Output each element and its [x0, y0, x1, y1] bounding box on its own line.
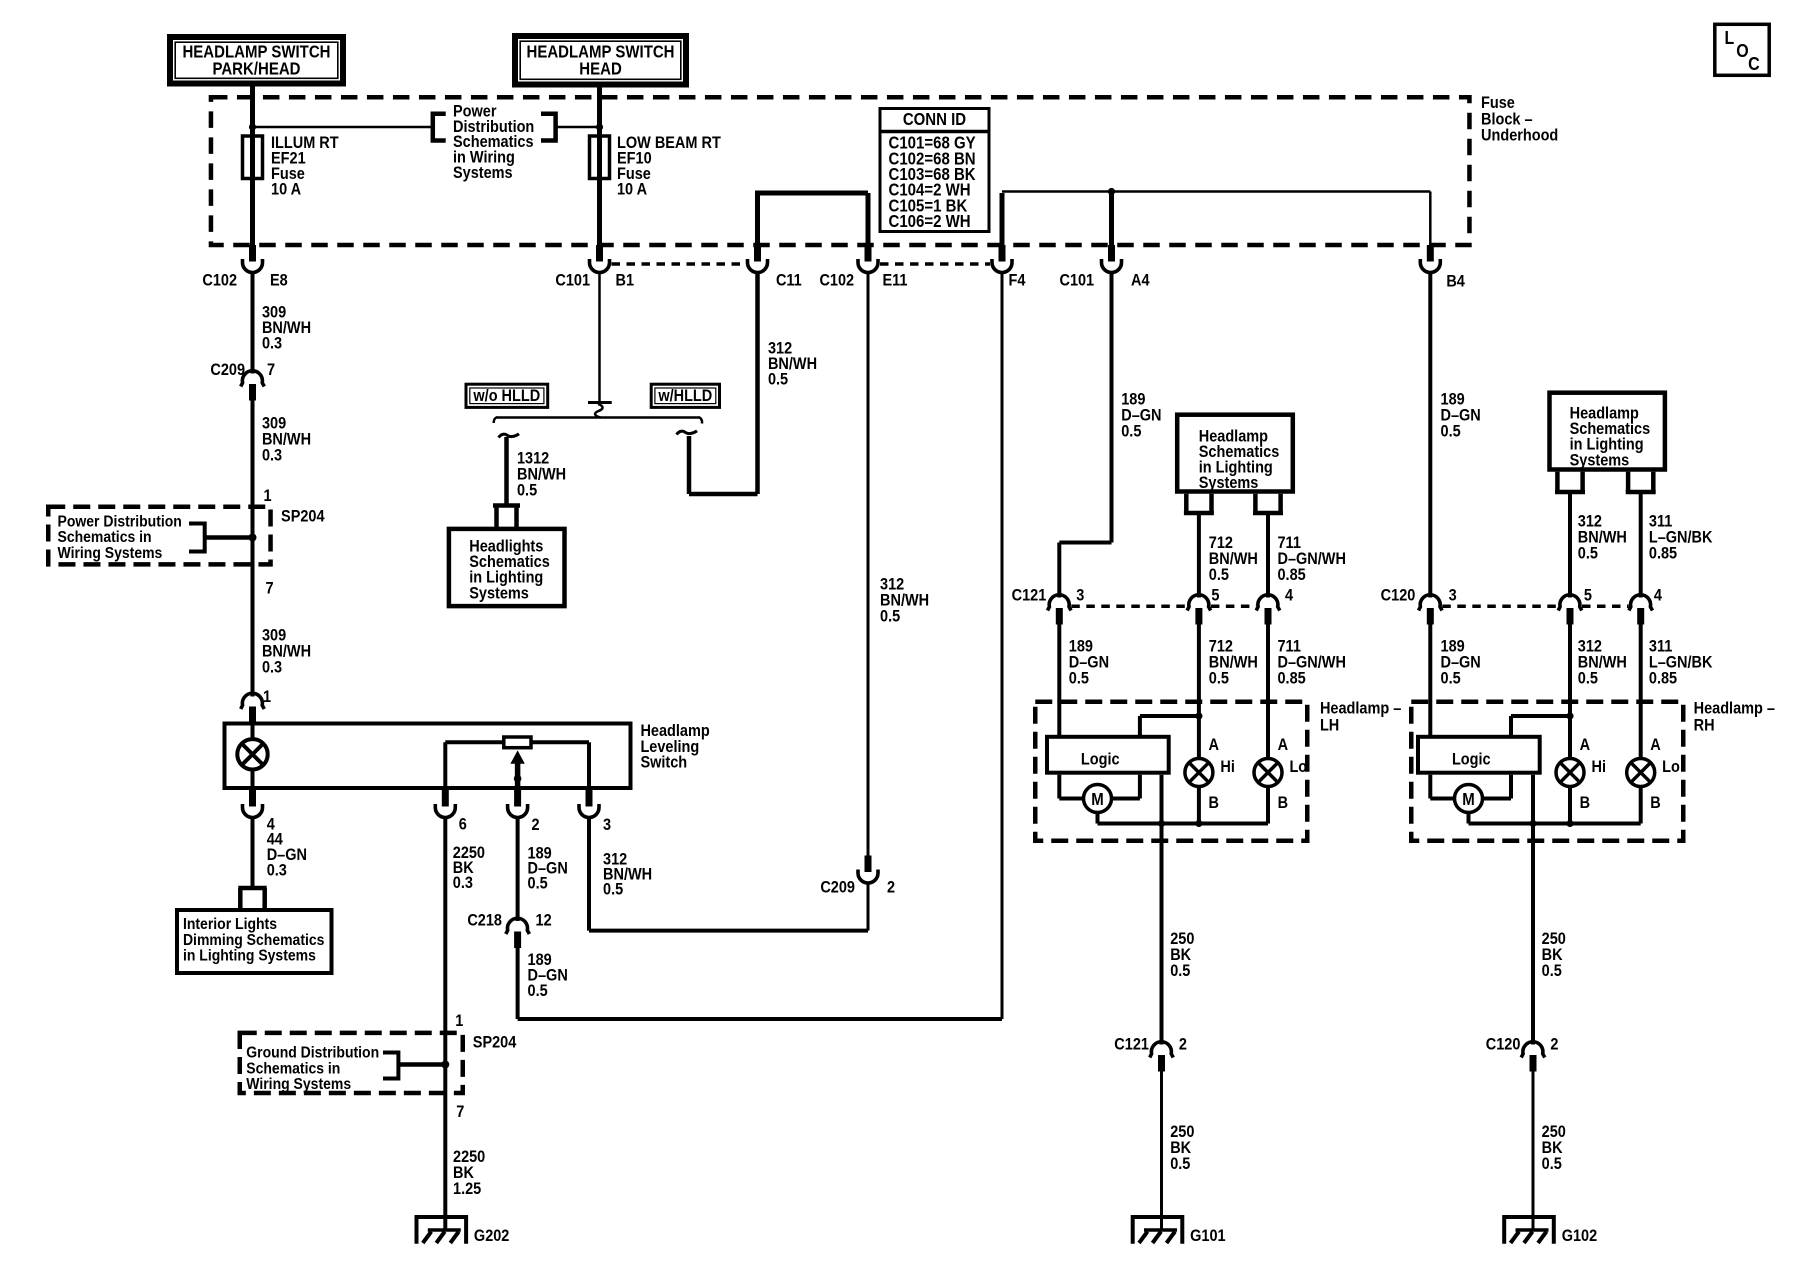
svg-text:Hi: Hi: [1220, 758, 1234, 776]
svg-text:HEAD: HEAD: [579, 60, 621, 79]
svg-text:G102: G102: [1562, 1227, 1598, 1245]
svg-text:C209: C209: [210, 361, 245, 379]
svg-text:M: M: [1091, 790, 1104, 809]
svg-text:0.5: 0.5: [528, 875, 548, 893]
svg-text:2: 2: [531, 816, 539, 834]
svg-text:A: A: [1650, 736, 1660, 754]
svg-text:SP204: SP204: [473, 1034, 517, 1052]
svg-text:0.85: 0.85: [1649, 670, 1678, 688]
svg-text:RH: RH: [1694, 717, 1715, 735]
svg-text:A: A: [1209, 736, 1219, 754]
svg-text:A: A: [1278, 736, 1288, 754]
svg-text:G202: G202: [474, 1227, 510, 1245]
svg-text:G101: G101: [1190, 1227, 1226, 1245]
svg-text:2: 2: [1179, 1035, 1187, 1053]
svg-text:5: 5: [1211, 587, 1219, 605]
svg-text:0.3: 0.3: [262, 447, 282, 465]
svg-text:B: B: [1278, 794, 1288, 812]
svg-text:Systems: Systems: [1570, 451, 1630, 469]
svg-text:0.5: 0.5: [1441, 670, 1461, 688]
svg-text:C11: C11: [776, 272, 802, 290]
svg-text:0.5: 0.5: [1069, 670, 1089, 688]
svg-text:Logic: Logic: [1452, 751, 1491, 769]
svg-text:3: 3: [1449, 587, 1457, 605]
svg-text:0.85: 0.85: [1649, 545, 1678, 563]
svg-text:Lo: Lo: [1662, 758, 1680, 776]
svg-text:0.5: 0.5: [1121, 422, 1141, 440]
svg-text:C218: C218: [467, 912, 502, 930]
svg-text:12: 12: [536, 912, 552, 930]
svg-text:0.5: 0.5: [880, 608, 900, 626]
svg-text:M: M: [1462, 790, 1475, 809]
svg-text:0.5: 0.5: [528, 982, 548, 1000]
svg-text:C101: C101: [1059, 272, 1094, 290]
svg-text:4: 4: [1654, 587, 1662, 605]
svg-text:3: 3: [1076, 587, 1084, 605]
svg-text:B: B: [1650, 794, 1660, 812]
svg-text:0.3: 0.3: [262, 335, 282, 353]
svg-text:0.5: 0.5: [1542, 1155, 1562, 1173]
svg-text:SP204: SP204: [281, 508, 325, 526]
svg-text:LH: LH: [1320, 717, 1339, 735]
svg-text:0.85: 0.85: [1278, 670, 1307, 688]
svg-text:C121: C121: [1012, 587, 1047, 605]
svg-text:B: B: [1580, 794, 1590, 812]
svg-text:0.5: 0.5: [1170, 962, 1190, 980]
svg-text:Systems: Systems: [469, 584, 529, 602]
svg-text:0.5: 0.5: [1542, 962, 1562, 980]
svg-text:CONN ID: CONN ID: [903, 110, 966, 129]
svg-text:C209: C209: [820, 879, 855, 897]
svg-text:A4: A4: [1131, 272, 1150, 290]
svg-text:0.5: 0.5: [1209, 670, 1229, 688]
svg-text:L: L: [1725, 27, 1735, 48]
svg-text:1.25: 1.25: [453, 1180, 482, 1198]
svg-text:1: 1: [455, 1012, 463, 1030]
svg-text:0.5: 0.5: [1170, 1155, 1190, 1173]
svg-text:0.5: 0.5: [1578, 670, 1598, 688]
svg-text:Headlamp –: Headlamp –: [1694, 700, 1776, 718]
svg-text:Lo: Lo: [1289, 758, 1307, 776]
svg-text:B4: B4: [1446, 273, 1465, 291]
svg-text:0.3: 0.3: [453, 874, 473, 892]
svg-text:2: 2: [887, 879, 895, 897]
svg-text:w/HLLD: w/HLLD: [657, 387, 712, 405]
svg-text:PARK/HEAD: PARK/HEAD: [212, 60, 300, 79]
svg-text:w/o HLLD: w/o HLLD: [472, 387, 540, 405]
svg-text:10 A: 10 A: [617, 181, 647, 199]
svg-text:Wiring Systems: Wiring Systems: [57, 544, 162, 562]
svg-text:C120: C120: [1381, 587, 1416, 605]
svg-text:0.5: 0.5: [517, 482, 537, 500]
svg-text:C121: C121: [1114, 1035, 1149, 1053]
svg-text:0.3: 0.3: [267, 862, 287, 880]
svg-text:Systems: Systems: [1199, 474, 1259, 492]
svg-text:B: B: [1209, 794, 1219, 812]
svg-text:0.3: 0.3: [262, 659, 282, 677]
svg-text:2: 2: [1550, 1035, 1558, 1053]
svg-text:Wiring Systems: Wiring Systems: [246, 1075, 351, 1093]
svg-text:Switch: Switch: [640, 754, 687, 772]
svg-text:7: 7: [456, 1103, 464, 1121]
svg-text:0.5: 0.5: [768, 371, 788, 389]
svg-text:6: 6: [459, 816, 467, 834]
svg-text:Logic: Logic: [1081, 751, 1120, 769]
svg-text:7: 7: [267, 361, 275, 379]
svg-text:C120: C120: [1486, 1035, 1521, 1053]
svg-text:5: 5: [1584, 587, 1592, 605]
svg-text:0.5: 0.5: [1578, 545, 1598, 563]
svg-text:in Lighting Systems: in Lighting Systems: [183, 947, 316, 965]
svg-text:C102: C102: [819, 272, 854, 290]
svg-text:A: A: [1580, 736, 1590, 754]
svg-text:Hi: Hi: [1592, 758, 1606, 776]
svg-text:Systems: Systems: [453, 164, 513, 182]
svg-text:O: O: [1736, 40, 1748, 61]
svg-text:C106=2 WH: C106=2 WH: [889, 212, 971, 231]
svg-text:4: 4: [1285, 587, 1293, 605]
svg-text:1: 1: [263, 487, 271, 505]
svg-text:0.5: 0.5: [1441, 422, 1461, 440]
svg-text:Underhood: Underhood: [1481, 127, 1558, 145]
svg-text:C: C: [1748, 53, 1760, 74]
svg-text:C101: C101: [555, 272, 590, 290]
svg-text:0.5: 0.5: [603, 880, 623, 898]
svg-text:Headlamp –: Headlamp –: [1320, 700, 1402, 718]
svg-text:3: 3: [603, 816, 611, 834]
svg-text:E8: E8: [270, 272, 288, 290]
svg-text:C102: C102: [202, 272, 237, 290]
svg-text:B1: B1: [616, 272, 635, 290]
svg-text:E11: E11: [882, 272, 907, 290]
svg-text:0.5: 0.5: [1209, 566, 1229, 584]
svg-text:0.85: 0.85: [1278, 566, 1307, 584]
svg-text:1: 1: [263, 688, 271, 706]
svg-text:10 A: 10 A: [271, 181, 301, 199]
svg-text:7: 7: [265, 580, 273, 598]
svg-text:F4: F4: [1009, 272, 1026, 290]
